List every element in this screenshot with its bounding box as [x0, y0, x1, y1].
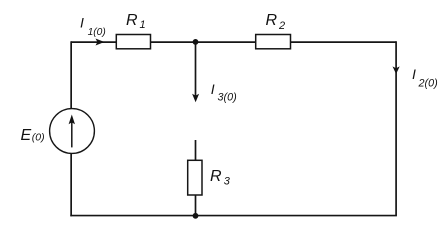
wire top segment right (R2 to right corner)	[290, 41, 396, 43]
svg-text:2: 2	[278, 20, 285, 32]
label I3(0)	[211, 81, 237, 104]
svg-text:3(0): 3(0)	[218, 92, 237, 104]
label R1	[126, 12, 146, 31]
svg-text:I: I	[211, 81, 215, 97]
svg-text:R: R	[210, 168, 222, 185]
current arrow I3(0)	[192, 94, 199, 103]
wire top segment middle (R1 to R2)	[150, 41, 256, 43]
svg-text:E: E	[21, 127, 32, 144]
label I1(0)	[80, 15, 106, 39]
svg-text:3: 3	[224, 176, 231, 188]
wire R3 top lead	[195, 140, 197, 161]
resistor R3	[188, 160, 202, 195]
label R3	[210, 168, 231, 187]
current arrow I1(0)	[96, 39, 105, 46]
junction node bottom	[193, 213, 199, 219]
svg-text:2(0): 2(0)	[418, 77, 438, 89]
resistor R2	[256, 35, 291, 49]
svg-text:I: I	[412, 66, 416, 82]
voltage source E(0)	[50, 109, 95, 154]
wire left upper (top corner to source)	[70, 41, 72, 108]
svg-text:1(0): 1(0)	[88, 27, 106, 38]
svg-text:R: R	[126, 12, 138, 29]
current arrow I2(0)	[393, 66, 400, 74]
svg-text:1: 1	[140, 19, 146, 31]
label E(0)	[21, 127, 45, 144]
wire middle branch upper (node to I3 arrow)	[195, 42, 197, 97]
label R2	[266, 12, 286, 32]
wire left lower (source to bottom corner)	[70, 153, 72, 216]
label I2(0)	[412, 66, 438, 89]
svg-text:I: I	[80, 15, 84, 31]
wire top segment left (E to R1)	[71, 41, 117, 43]
svg-text:(0): (0)	[32, 131, 45, 143]
wire right side vertical	[395, 41, 397, 215]
svg-text:R: R	[266, 12, 278, 29]
wire R3 bottom lead	[195, 195, 197, 216]
wire bottom	[70, 215, 397, 217]
junction node top	[193, 39, 199, 45]
resistor R1	[116, 35, 150, 49]
